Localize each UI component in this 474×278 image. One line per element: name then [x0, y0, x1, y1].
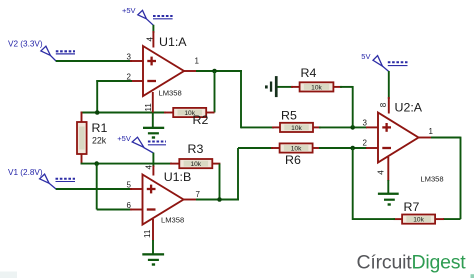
ground (U1:A)	[143, 113, 164, 139]
svg-text:4: 4	[144, 165, 153, 170]
svg-text:6: 6	[127, 201, 132, 210]
wire U1B out up to R6	[238, 148, 280, 200]
svg-text:R2: R2	[193, 113, 209, 127]
svg-text:R1: R1	[92, 121, 108, 135]
svg-text:1: 1	[195, 56, 200, 65]
op-amp U2:A	[378, 113, 419, 163]
wire V2 to U1A pin3	[56, 60, 144, 62]
svg-text:8: 8	[379, 102, 388, 107]
wire node B horizontal (R1 bottom to R3 left)	[81, 163, 180, 165]
wire U1A out right then down to R5	[241, 71, 281, 128]
svg-text:22k: 22k	[92, 135, 107, 145]
wire R6 right to U2A pin2	[312, 147, 378, 149]
node A junction	[95, 110, 100, 115]
svg-text:+5V: +5V	[117, 134, 131, 143]
pin 11 stub (U1:B)	[152, 219, 154, 241]
resistor R6	[280, 143, 313, 152]
node pin2 junction	[350, 146, 355, 151]
svg-text:10k: 10k	[190, 161, 201, 168]
svg-text:3: 3	[127, 52, 132, 61]
resistor R2	[173, 108, 206, 117]
svg-text:11: 11	[144, 103, 153, 112]
wire R5 right to U2A pin3	[313, 126, 379, 128]
svg-text:U2:A: U2:A	[395, 101, 423, 115]
svg-text:2: 2	[363, 139, 368, 148]
wire +5V down to U1B pin4	[152, 153, 154, 176]
svg-text:10k: 10k	[311, 85, 322, 92]
resistor R3	[179, 159, 212, 168]
svg-text:LM358: LM358	[161, 215, 184, 224]
svg-text:10k: 10k	[291, 125, 302, 132]
ground (U2:A)	[378, 180, 399, 206]
terminal +5V (U1:B supply)	[117, 134, 166, 153]
ground (U1:B)	[142, 240, 164, 266]
logo CircuitDigest	[0, 252, 474, 278]
op-amp U1:A	[143, 46, 184, 96]
resistor R1	[77, 122, 87, 154]
node U1B out junction	[217, 197, 222, 202]
svg-text:R4: R4	[301, 66, 317, 80]
svg-text:5: 5	[127, 180, 132, 189]
wire R7 left up to pin2 node	[353, 148, 403, 220]
terminal +5V (U1:A supply)	[122, 6, 173, 25]
wire U1A output pin1	[184, 70, 242, 72]
svg-text:10k: 10k	[291, 146, 302, 153]
svg-text:1: 1	[429, 127, 434, 136]
wire battery to R4	[278, 86, 301, 88]
pin 4 stub (U2:A)	[387, 157, 389, 181]
svg-text:LM358: LM358	[420, 174, 443, 183]
wire U1A pin2 to node A	[96, 80, 143, 113]
svg-text:LM358: LM358	[159, 88, 182, 97]
svg-text:2: 2	[127, 72, 132, 81]
resistor R5	[280, 123, 313, 132]
wire R1 top stub	[81, 112, 83, 123]
svg-text:U1:A: U1:A	[159, 35, 187, 49]
op-amp U1:B	[143, 175, 184, 225]
svg-text:7: 7	[196, 190, 201, 199]
wire R4 right down to pin3 node	[333, 86, 352, 127]
svg-text:CírcuitDigest: CírcuitDigest	[357, 252, 467, 274]
svg-text:11: 11	[143, 229, 152, 238]
svg-text:V1 (2.8V): V1 (2.8V)	[8, 168, 43, 177]
wire R3 right down to U1B output	[212, 164, 221, 201]
wire U1B output pin7	[184, 199, 240, 201]
svg-text:R5: R5	[281, 108, 297, 122]
terminal V2 (3.3V)	[8, 40, 75, 62]
svg-text:+5V: +5V	[122, 6, 136, 15]
svg-text:V2 (3.3V): V2 (3.3V)	[8, 40, 43, 49]
svg-text:U1:B: U1:B	[164, 170, 192, 184]
svg-text:3: 3	[363, 119, 368, 128]
terminal 5V (U2:A supply)	[361, 52, 407, 72]
svg-text:4: 4	[145, 37, 154, 42]
battery cell B1	[265, 76, 278, 97]
svg-text:5V: 5V	[361, 52, 370, 61]
svg-text:4: 4	[376, 170, 385, 175]
wire R1 bottom stub	[81, 154, 83, 165]
wire junction down to R2 right	[205, 71, 215, 113]
svg-text:R7: R7	[404, 200, 420, 214]
svg-text:10k: 10k	[413, 217, 424, 224]
node U1A out junction	[212, 69, 217, 74]
wire U2A output pin1	[419, 137, 461, 139]
wire node B down to U1B pin6	[97, 163, 143, 210]
wire +5V down to U1A pin4	[152, 25, 154, 48]
svg-text:R6: R6	[285, 153, 301, 167]
resistor R4	[300, 82, 334, 91]
node B junction	[94, 161, 99, 166]
resistor R7	[402, 215, 435, 224]
terminal V1 (2.8V)	[8, 168, 75, 189]
node pin3 junction	[350, 125, 355, 130]
svg-text:R3: R3	[188, 142, 204, 156]
pin 11 stub (U1:A)	[152, 92, 154, 113]
wire U2A out down to R7 right	[435, 137, 461, 220]
wire node A horizontal (R1 top / gnd / R2 left)	[81, 112, 174, 114]
wire 5V down to U2A pin8	[388, 71, 390, 114]
wire V1 to U1B pin5	[56, 188, 143, 190]
